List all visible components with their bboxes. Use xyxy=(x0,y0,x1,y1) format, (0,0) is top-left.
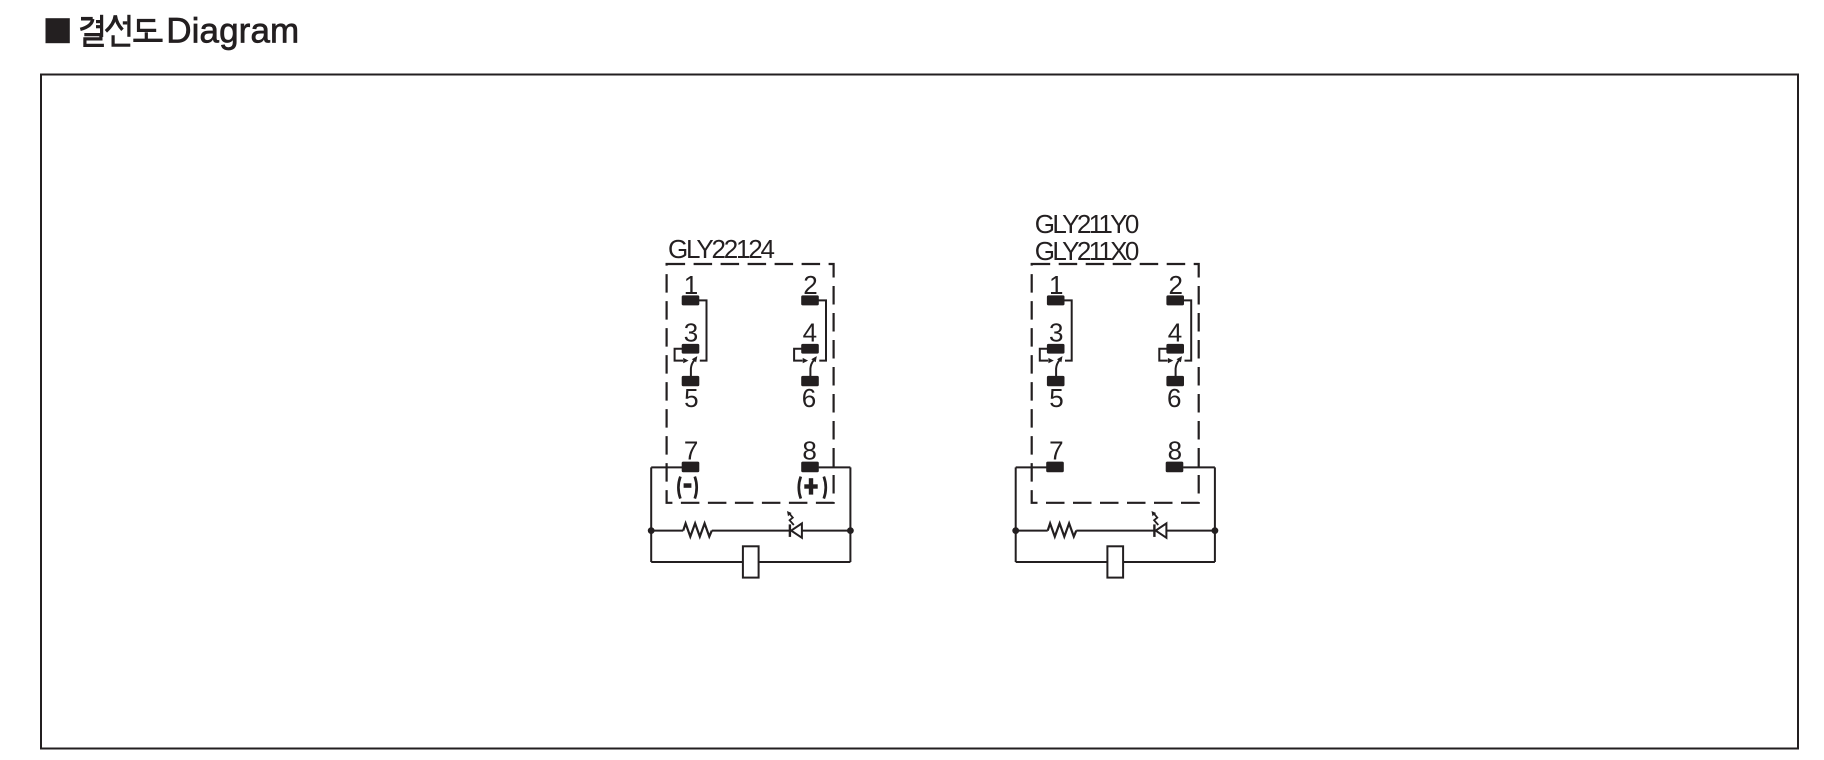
svg-text:7: 7 xyxy=(684,436,698,466)
svg-text:7: 7 xyxy=(1049,436,1063,466)
svg-text:Diagram: Diagram xyxy=(166,12,299,51)
svg-text:2: 2 xyxy=(1168,270,1182,300)
svg-text:GLY22124: GLY22124 xyxy=(668,234,775,264)
svg-text:3: 3 xyxy=(1049,317,1063,347)
svg-text:8: 8 xyxy=(802,436,816,466)
svg-text:GLY211Y0: GLY211Y0 xyxy=(1035,209,1140,239)
svg-text:4: 4 xyxy=(1168,317,1182,347)
svg-text:1: 1 xyxy=(1049,270,1063,300)
svg-text:6: 6 xyxy=(1167,383,1181,413)
svg-text:6: 6 xyxy=(802,383,816,413)
svg-text:1: 1 xyxy=(684,270,698,300)
svg-text:8: 8 xyxy=(1168,436,1182,466)
svg-text:5: 5 xyxy=(684,383,698,413)
svg-text:2: 2 xyxy=(803,270,817,300)
svg-text:5: 5 xyxy=(1049,383,1063,413)
svg-text:4: 4 xyxy=(803,317,817,347)
svg-text:3: 3 xyxy=(684,317,698,347)
svg-text:GLY211X0: GLY211X0 xyxy=(1035,236,1140,266)
